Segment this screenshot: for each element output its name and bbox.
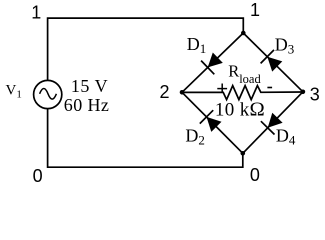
svg-text:D1: D1 <box>187 34 207 56</box>
svg-text:V1: V1 <box>6 83 22 101</box>
svg-text:10 kΩ: 10 kΩ <box>215 99 265 121</box>
svg-text:Rload: Rload <box>228 62 261 86</box>
svg-text:2: 2 <box>159 82 169 102</box>
svg-text:0: 0 <box>250 165 260 185</box>
svg-text:15 V: 15 V <box>71 76 108 96</box>
svg-text:3: 3 <box>310 85 320 105</box>
svg-text:D2: D2 <box>185 126 205 148</box>
svg-text:D3: D3 <box>275 35 295 57</box>
svg-text:1: 1 <box>250 0 260 20</box>
svg-text:0: 0 <box>33 166 43 186</box>
svg-text:1: 1 <box>31 3 41 23</box>
svg-text:60 Hz: 60 Hz <box>64 95 110 115</box>
svg-text:D4: D4 <box>276 126 296 148</box>
